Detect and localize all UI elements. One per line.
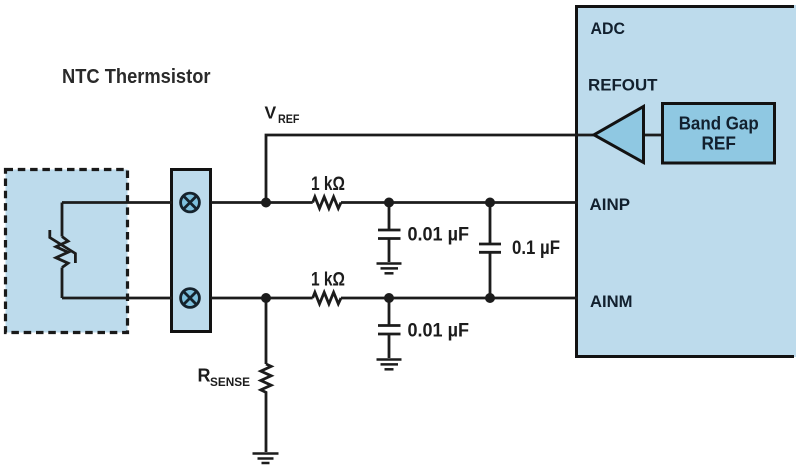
svg-text:0.01 µF: 0.01 µF [408,225,470,246]
svg-text:ADC: ADC [591,20,626,38]
svg-text:SENSE: SENSE [210,375,250,389]
svg-text:REF: REF [278,112,300,126]
svg-text:Band Gap: Band Gap [679,112,759,133]
svg-text:V: V [265,103,277,123]
svg-text:AINM: AINM [590,293,633,311]
svg-text:R: R [198,366,211,386]
svg-text:0.1 µF: 0.1 µF [512,238,560,259]
svg-text:REFOUT: REFOUT [588,77,658,95]
svg-text:1 kΩ: 1 kΩ [311,270,345,291]
svg-text:0.01 µF: 0.01 µF [408,321,470,342]
svg-text:REF: REF [701,132,736,153]
svg-text:1 kΩ: 1 kΩ [311,174,345,195]
svg-text:AINP: AINP [590,196,631,214]
svg-text:NTC Thermsistor: NTC Thermsistor [62,66,211,88]
